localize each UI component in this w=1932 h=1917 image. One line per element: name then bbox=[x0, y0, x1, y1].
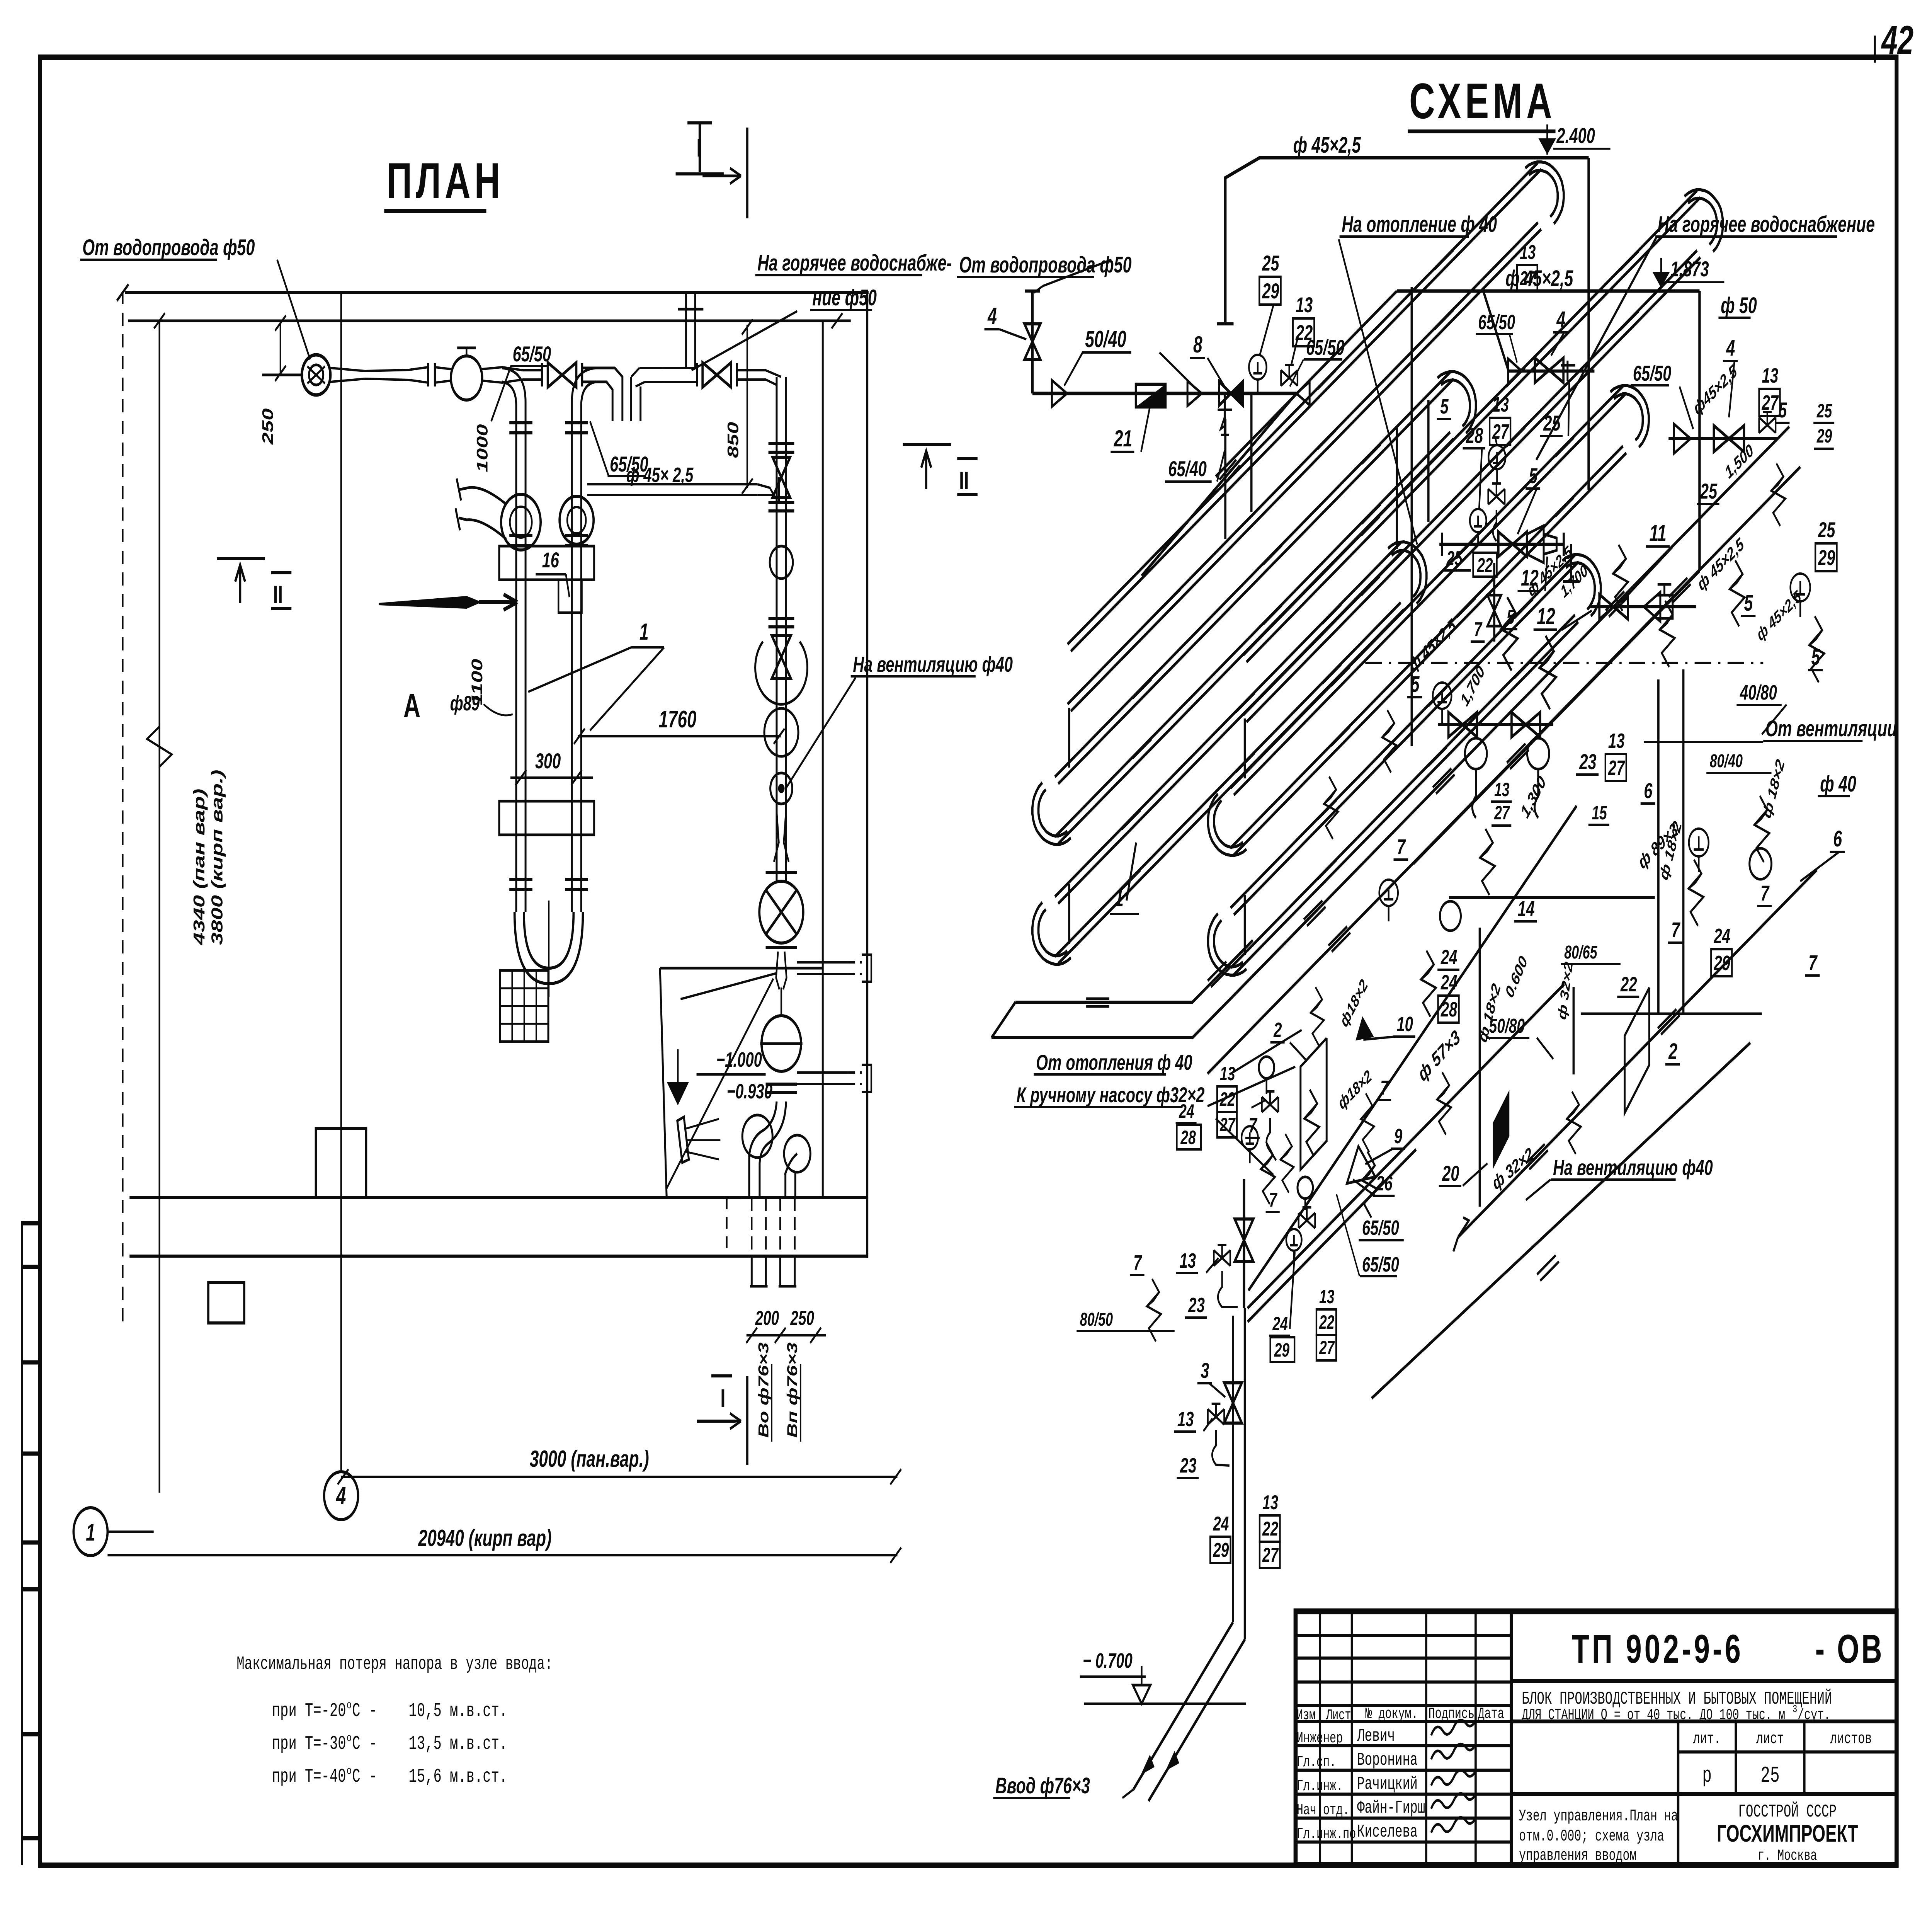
svg-text:20940 (кирп вар): 20940 (кирп вар) bbox=[418, 1525, 552, 1551]
title block outer bbox=[1296, 1611, 1896, 1865]
bolt l bbox=[1362, 1152, 1377, 1218]
coil L U-bend left a bbox=[1032, 783, 1071, 844]
plan bottom wall inner line bbox=[129, 1196, 741, 1199]
svg-text:65/50: 65/50 bbox=[1362, 1253, 1399, 1276]
coil L jumper 2 bbox=[1068, 884, 1071, 944]
svg-text:р: р bbox=[1702, 1764, 1712, 1789]
pit dashed edge bbox=[726, 1198, 728, 1256]
svg-text:4: 4 bbox=[336, 1482, 346, 1509]
valve 4 inlet bbox=[1024, 324, 1040, 359]
svg-text:7: 7 bbox=[1808, 951, 1818, 975]
flange tick f bbox=[735, 363, 738, 386]
svg-text:65/50: 65/50 bbox=[1362, 1216, 1399, 1239]
pit elbow circle 2 bbox=[784, 1135, 810, 1172]
svg-text:10,5 м.в.ст.: 10,5 м.в.ст. bbox=[409, 1701, 508, 1722]
main pipe phi45 second bbox=[1397, 289, 1699, 293]
svg-text:4: 4 bbox=[1726, 335, 1735, 361]
svg-text:-: - bbox=[369, 1766, 377, 1788]
bolt r bbox=[1261, 1142, 1275, 1204]
pipe after valve top bbox=[482, 367, 523, 370]
svg-text:21: 21 bbox=[1114, 426, 1132, 452]
riser elbow circle 1 bbox=[501, 494, 541, 550]
title block row line bbox=[1296, 1817, 1511, 1820]
valve 3 upper bbox=[1235, 1219, 1253, 1262]
svg-text:25: 25 bbox=[1818, 518, 1835, 542]
vertical riser mid bbox=[1410, 287, 1413, 746]
main diagonal from far right drop bbox=[1413, 571, 1700, 864]
svg-text:1760: 1760 bbox=[659, 706, 697, 733]
weld mark on main bbox=[1526, 1144, 1548, 1170]
svg-text:БЛОК ПРОИЗВОДСТВЕННЫХ И БЫТОВЫ: БЛОК ПРОИЗВОДСТВЕННЫХ И БЫТОВЫХ ПОМЕЩЕНИ… bbox=[1522, 1689, 1832, 1709]
label 65/50 C1 bbox=[1304, 335, 1344, 359]
weld mark on main bbox=[1658, 1009, 1680, 1035]
coil weld mark bbox=[1322, 664, 1344, 690]
weld mark on main bbox=[1605, 591, 1628, 617]
riser flange bbox=[509, 421, 532, 424]
cone 65/50 transition bbox=[1338, 1146, 1375, 1199]
svg-text:23: 23 bbox=[1579, 750, 1597, 774]
svg-text:ГОССТРОЙ СССР: ГОССТРОЙ СССР bbox=[1738, 1801, 1837, 1822]
axis circle 1 bbox=[73, 1508, 107, 1556]
svg-text:3: 3 bbox=[1201, 1359, 1209, 1382]
bolt b bbox=[1539, 636, 1556, 709]
coil L U-bend right b bbox=[1388, 542, 1426, 604]
plan right inner wall line bbox=[821, 321, 824, 1198]
svg-text:7: 7 bbox=[1249, 1114, 1258, 1137]
svg-text:о: о bbox=[347, 1699, 352, 1712]
svg-text:− 0.700: − 0.700 bbox=[1083, 1649, 1133, 1672]
pipe C2 bbox=[1509, 369, 1594, 373]
bolt a bbox=[1501, 597, 1518, 671]
pipe: reducer after sleeve bbox=[330, 367, 428, 371]
page number tick bbox=[1874, 36, 1876, 63]
coil L U-bend left b bbox=[1032, 902, 1071, 964]
pipe through wall dashed bbox=[779, 1198, 781, 1256]
svg-text:II: II bbox=[273, 581, 283, 608]
vvod diagonal to entry bbox=[1133, 1622, 1233, 1789]
svg-text:1000: 1000 bbox=[474, 424, 491, 472]
coil L mid jumper b bbox=[1250, 392, 1253, 512]
main diagonal D2 bbox=[1207, 467, 1800, 1074]
svg-text:Дата: Дата bbox=[1478, 1706, 1504, 1723]
label ot vodoprovoda schema bbox=[957, 252, 1132, 278]
coil L run 6 bbox=[1058, 609, 1404, 964]
svg-text:ние ф50: ние ф50 bbox=[812, 285, 877, 310]
valve C7 a bbox=[1449, 712, 1477, 737]
svg-text:На горячее водоснабжение: На горячее водоснабжение bbox=[1658, 211, 1875, 237]
svg-text:250: 250 bbox=[790, 1307, 814, 1330]
reducer cone inlet bbox=[1052, 380, 1067, 407]
plan gate valve 2 bbox=[702, 363, 731, 387]
leader ot vodoprovoda bbox=[277, 260, 310, 359]
coil L U-bend right top bbox=[1525, 162, 1563, 224]
main diagonal D3 bbox=[1458, 870, 1816, 1237]
label phi40 vent bbox=[1818, 771, 1856, 797]
coil weld mark bbox=[1506, 427, 1528, 453]
diagonal from P2 corner bbox=[1216, 291, 1397, 477]
flange below ball bbox=[766, 1083, 797, 1086]
riser flange bbox=[509, 878, 532, 881]
coil weld mark bbox=[1620, 311, 1642, 337]
title block row line bbox=[1296, 1840, 1511, 1844]
svg-text:А: А bbox=[403, 687, 420, 724]
gauge mid right bbox=[1689, 829, 1709, 872]
coil L U-bend right a bbox=[1437, 371, 1476, 433]
svg-text:24: 24 bbox=[1213, 1512, 1229, 1535]
pit elbow circle 1 bbox=[742, 1115, 772, 1158]
coil weld mark bbox=[1122, 870, 1144, 896]
coil weld mark bbox=[1317, 430, 1339, 456]
title block row line bbox=[1296, 1793, 1511, 1796]
gauge 28 bbox=[1470, 509, 1486, 544]
svg-text:9: 9 bbox=[1394, 1125, 1402, 1148]
svg-text:Максимальная потеря напора в у: Максимальная потеря напора в узле ввода: bbox=[236, 1653, 553, 1675]
svg-text:1: 1 bbox=[1114, 885, 1124, 912]
svg-text:7: 7 bbox=[1671, 918, 1680, 942]
weld mark on main bbox=[1507, 744, 1529, 769]
bolt m bbox=[1437, 1072, 1451, 1135]
svg-text:27: 27 bbox=[1262, 1544, 1279, 1566]
pipe C7 bbox=[1438, 723, 1553, 726]
svg-text:50/80: 50/80 bbox=[1489, 1015, 1525, 1037]
svg-text:25: 25 bbox=[1262, 251, 1280, 275]
coil weld mark bbox=[1331, 667, 1353, 692]
top pipe inlet line bbox=[262, 374, 303, 376]
right riser line a bbox=[775, 377, 778, 881]
svg-text:/сут.: /сут. bbox=[1798, 1707, 1830, 1724]
gauge mid bbox=[1379, 880, 1398, 921]
plan right outer wall line bbox=[866, 293, 869, 1258]
inlet vertical bbox=[1031, 293, 1034, 393]
coil weld mark bbox=[1555, 438, 1577, 463]
bolt j bbox=[1421, 951, 1436, 1017]
coil L run 3 bbox=[1058, 379, 1454, 784]
section mark II left top bbox=[217, 557, 265, 560]
elbow run A into riser 1 bbox=[502, 368, 526, 912]
riser flange bbox=[509, 534, 532, 537]
label 65-50 a bbox=[510, 342, 551, 366]
branch pipe right lower bbox=[797, 1071, 848, 1074]
coil weld mark bbox=[1506, 368, 1528, 393]
svg-text:2.400: 2.400 bbox=[1556, 124, 1595, 148]
coil R run 4 bbox=[1234, 453, 1626, 855]
svg-text:65/50: 65/50 bbox=[1633, 361, 1671, 385]
svg-text:Гл.сп.: Гл.сп. bbox=[1297, 1754, 1336, 1771]
flange tick d bbox=[580, 363, 583, 386]
pipe through wall dashed bbox=[750, 1198, 753, 1256]
curved pipe from elbow 1 to left bbox=[459, 487, 507, 539]
coil R U-bend right b bbox=[1562, 555, 1600, 616]
coil weld mark bbox=[1362, 504, 1384, 530]
title block column lines bbox=[1318, 1611, 1321, 1865]
elbow riser 2 into run B bbox=[572, 368, 595, 912]
coil R U-bend left b bbox=[1208, 914, 1246, 975]
svg-text:при Т=-20: при Т=-20 bbox=[272, 1701, 346, 1722]
coil weld mark bbox=[1263, 545, 1285, 571]
heat plate 2 bbox=[1301, 1038, 1327, 1170]
svg-text:27: 27 bbox=[1608, 756, 1625, 780]
svg-text:-: - bbox=[369, 1733, 377, 1755]
divider under description bbox=[1511, 1720, 1896, 1723]
gauge C2 bbox=[1488, 445, 1505, 483]
coil R jumper 2 bbox=[1243, 895, 1247, 955]
fan spread symbol near pit bbox=[686, 1119, 721, 1159]
label phi50 schema bbox=[1718, 293, 1757, 318]
coil weld mark bbox=[1236, 693, 1258, 718]
tap bottom a bbox=[1214, 1245, 1230, 1266]
valve 7 below C2 bbox=[1487, 595, 1501, 626]
svg-text:- ОВ: - ОВ bbox=[1815, 1627, 1884, 1672]
main diagonal D4 low right bbox=[1372, 1043, 1750, 1398]
flange tick c bbox=[541, 363, 544, 386]
svg-text:5: 5 bbox=[1744, 590, 1753, 616]
svg-text:2: 2 bbox=[1273, 1018, 1282, 1042]
svg-text:Нач.отд.: Нач.отд. bbox=[1297, 1802, 1349, 1819]
coil weld mark bbox=[1317, 370, 1339, 396]
svg-text:24: 24 bbox=[1440, 946, 1457, 969]
title block row line bbox=[1296, 1704, 1511, 1707]
bolt k bbox=[1304, 1090, 1319, 1156]
svg-text:1: 1 bbox=[639, 619, 649, 645]
svg-text:13: 13 bbox=[1492, 393, 1509, 416]
svg-text:7: 7 bbox=[1380, 1076, 1389, 1099]
manometer C4 upper bbox=[1242, 1126, 1258, 1163]
svg-text:65/40: 65/40 bbox=[1168, 457, 1206, 481]
coil weld mark bbox=[1263, 605, 1285, 631]
svg-text:27: 27 bbox=[1762, 391, 1779, 414]
check valve 8 bbox=[1219, 381, 1231, 405]
svg-text:7: 7 bbox=[1474, 618, 1483, 641]
bolt s bbox=[1147, 1279, 1161, 1342]
single continuation to band bbox=[1413, 984, 1565, 1139]
binding tick bbox=[22, 1452, 40, 1456]
coil weld mark bbox=[1133, 739, 1155, 764]
svg-text:13: 13 bbox=[1608, 729, 1625, 752]
coil weld mark bbox=[1620, 251, 1642, 277]
flange at right riser bbox=[777, 477, 781, 502]
svg-text:29: 29 bbox=[1262, 279, 1279, 303]
coil weld mark bbox=[1555, 497, 1577, 523]
svg-text:250: 250 bbox=[259, 409, 276, 445]
svg-text:6: 6 bbox=[1833, 826, 1842, 851]
vertical phi18 riser b bbox=[1682, 669, 1685, 1014]
svg-text:13: 13 bbox=[1319, 1286, 1334, 1308]
label 65/50 C4 bbox=[1360, 1253, 1399, 1276]
svg-text:На отопление ф 40: На отопление ф 40 bbox=[1342, 211, 1497, 237]
coil weld mark bbox=[1435, 310, 1457, 335]
svg-text:25: 25 bbox=[1760, 1764, 1779, 1789]
bolt n bbox=[1324, 776, 1338, 839]
vertical riser low bbox=[1478, 928, 1481, 1207]
top run right segment a bbox=[664, 367, 697, 369]
tap 13 inlet bbox=[1281, 365, 1298, 386]
svg-text:−0.930: −0.930 bbox=[727, 1080, 772, 1103]
svg-text:о: о bbox=[347, 1731, 352, 1745]
divider under lit list header bbox=[1678, 1750, 1896, 1754]
coil L jumper 1 bbox=[1068, 708, 1071, 768]
bolt near 26 bbox=[1361, 1093, 1374, 1152]
label 65/50 C2 bbox=[1476, 311, 1515, 334]
vvod pipe right line bbox=[1243, 1308, 1247, 1639]
svg-text:7: 7 bbox=[1133, 1251, 1142, 1274]
title block row line bbox=[1296, 1769, 1511, 1772]
divider under doc number bbox=[1511, 1679, 1896, 1683]
branch pipe right upper bbox=[797, 961, 848, 964]
vertical phi32 stub bbox=[1572, 987, 1575, 1074]
svg-text:22: 22 bbox=[1319, 1312, 1334, 1333]
svg-text:15,6 м.в.ст.: 15,6 м.в.ст. bbox=[409, 1766, 508, 1788]
instrument circle C7 a bbox=[1465, 738, 1487, 769]
coil weld mark bbox=[1318, 800, 1340, 826]
svg-text:22: 22 bbox=[1620, 973, 1637, 996]
coil weld mark bbox=[1322, 604, 1344, 630]
svg-text:Гл.инж.по: Гл.инж.по bbox=[1297, 1826, 1356, 1843]
column on axis 4 bbox=[316, 1129, 366, 1198]
svg-text:24: 24 bbox=[1714, 924, 1730, 948]
break mark on wall line bbox=[147, 727, 172, 767]
vertical phi18 riser a bbox=[1657, 679, 1660, 1014]
coil weld mark bbox=[1361, 516, 1383, 542]
label na ventilyaciyu schema bbox=[1551, 1156, 1713, 1180]
horizontal pipe mid right bbox=[1449, 896, 1655, 899]
flange tick e bbox=[696, 363, 699, 386]
plan pipe phi45 bottom line bbox=[587, 494, 757, 496]
plan top dimension line bbox=[125, 291, 869, 294]
weld mark on main bbox=[1433, 768, 1455, 794]
svg-text:27: 27 bbox=[1519, 267, 1536, 290]
hot water outlet vertical bbox=[685, 294, 687, 368]
binding tick bbox=[22, 1732, 40, 1737]
double diagonal to 65/50 cluster bbox=[1248, 1139, 1413, 1308]
coil weld mark bbox=[1514, 599, 1536, 625]
svg-text:26: 26 bbox=[1376, 1172, 1393, 1195]
coil R mid jumper b bbox=[1427, 400, 1430, 522]
coil weld mark bbox=[1514, 659, 1536, 684]
coil weld mark bbox=[1361, 576, 1383, 602]
title block row line bbox=[1296, 1680, 1511, 1684]
svg-text:3000 (пан.вар.): 3000 (пан.вар.) bbox=[530, 1446, 649, 1472]
main diagonal phi57x3 bbox=[1248, 806, 1577, 1290]
gauge C7 bbox=[1433, 683, 1451, 724]
weld mark on main bbox=[1304, 901, 1326, 926]
svg-text:при Т=-30: при Т=-30 bbox=[272, 1733, 346, 1755]
reducer pair and tee bbox=[1527, 526, 1557, 563]
binding tick bbox=[22, 1541, 40, 1545]
coil R run 1 bbox=[1247, 197, 1701, 662]
binding margin line bbox=[20, 1221, 23, 1865]
section mark I bottom bbox=[697, 1420, 735, 1423]
svg-text:ф 45×2,5: ф 45×2,5 bbox=[1505, 266, 1573, 291]
svg-text:15: 15 bbox=[1592, 802, 1607, 824]
svg-text:12: 12 bbox=[1537, 604, 1555, 630]
wall sleeve flange circle bbox=[302, 355, 330, 395]
svg-text:25: 25 bbox=[1816, 400, 1832, 422]
svg-text:42: 42 bbox=[1881, 18, 1914, 63]
svg-text:24: 24 bbox=[1272, 1313, 1288, 1335]
title block row line bbox=[1296, 1634, 1511, 1637]
tap C2 bbox=[1488, 484, 1505, 504]
divider lit-list bbox=[1734, 1721, 1737, 1794]
svg-text:5: 5 bbox=[1529, 464, 1538, 488]
svg-text:6: 6 bbox=[1644, 779, 1653, 803]
svg-text:13: 13 bbox=[1220, 1063, 1235, 1084]
bolt e bbox=[1730, 560, 1745, 627]
gauge at inlet bbox=[1249, 355, 1266, 393]
label Vvod phi76x3 bbox=[993, 1773, 1090, 1798]
binding tick bbox=[22, 1265, 40, 1269]
coil L run 1 bbox=[1071, 169, 1541, 651]
svg-text:5: 5 bbox=[1778, 398, 1787, 422]
svg-text:о: о bbox=[347, 1764, 352, 1778]
cone before corner bbox=[1296, 382, 1310, 405]
flange tick a bbox=[427, 363, 430, 386]
coil R run 3 bbox=[1234, 393, 1626, 795]
valve 5 mid bbox=[1498, 532, 1527, 557]
svg-text:1: 1 bbox=[86, 1519, 95, 1546]
pipe end tick bbox=[1217, 322, 1234, 325]
cone on main filled bbox=[1352, 1019, 1372, 1047]
svg-text:I: I bbox=[720, 1384, 725, 1413]
svg-text:3: 3 bbox=[1793, 1704, 1797, 1716]
svg-text:ф 40: ф 40 bbox=[1820, 771, 1856, 797]
svg-text:ГОСХИМПРОЕКТ: ГОСХИМПРОЕКТ bbox=[1717, 1820, 1858, 1847]
inlet horizontal bbox=[1032, 392, 1296, 395]
svg-text:С: С bbox=[352, 1766, 360, 1788]
svg-text:1.873: 1.873 bbox=[1670, 257, 1709, 281]
black parallelogram 20 bbox=[1493, 1090, 1510, 1169]
valve 3 lower bbox=[1224, 1383, 1242, 1423]
svg-text:Во ф76×3: Во ф76×3 bbox=[755, 1342, 772, 1438]
svg-text:К ручному насосу ф32×2: К ручному насосу ф32×2 bbox=[1017, 1083, 1205, 1107]
svg-text:65/50: 65/50 bbox=[1306, 335, 1344, 359]
dash-dot level line bbox=[1365, 662, 1763, 664]
svg-text:29: 29 bbox=[1816, 426, 1832, 447]
coil weld mark bbox=[1122, 810, 1144, 836]
coil weld mark bbox=[1162, 589, 1184, 615]
reducer cone 2 bbox=[1187, 381, 1202, 406]
svg-text:16: 16 bbox=[542, 548, 560, 572]
svg-text:−1.000: −1.000 bbox=[716, 1048, 762, 1071]
U loop bottom of risers bbox=[515, 912, 583, 984]
svg-text:22: 22 bbox=[1262, 1517, 1278, 1540]
svg-text:На вентиляцию ф40: На вентиляцию ф40 bbox=[1553, 1156, 1713, 1180]
valve C7 b bbox=[1512, 712, 1540, 737]
svg-text:Гл.инж.: Гл.инж. bbox=[1297, 1778, 1343, 1795]
gauge right bbox=[1791, 574, 1810, 617]
instrument circle C7 b bbox=[1527, 738, 1549, 769]
plan gate valve 1 bbox=[548, 363, 577, 387]
svg-text:850: 850 bbox=[724, 422, 742, 458]
right riser valve 1 bbox=[772, 457, 790, 497]
svg-text:11: 11 bbox=[1649, 521, 1666, 546]
svg-text:4340 (пан вар): 4340 (пан вар) bbox=[190, 788, 208, 945]
bolt o bbox=[1382, 710, 1396, 773]
svg-text:Лист: Лист bbox=[1326, 1707, 1351, 1724]
coil weld mark bbox=[1133, 679, 1155, 705]
coil weld mark bbox=[1318, 860, 1340, 885]
plan valve body circle bbox=[451, 356, 482, 400]
main diagonal D1 bbox=[1192, 427, 1789, 1038]
plan top wall line bbox=[128, 320, 851, 322]
svg-text:7: 7 bbox=[1397, 835, 1406, 859]
right riser circle mid bbox=[764, 708, 798, 756]
signatures bbox=[1431, 1720, 1476, 1735]
riser centerline bbox=[548, 901, 550, 997]
svg-text:лит.: лит. bbox=[1693, 1730, 1721, 1748]
svg-text:На вентиляцию ф40: На вентиляцию ф40 bbox=[853, 652, 1013, 676]
pipe 12 cluster bbox=[1589, 605, 1696, 608]
cone C2 bbox=[1508, 359, 1522, 383]
